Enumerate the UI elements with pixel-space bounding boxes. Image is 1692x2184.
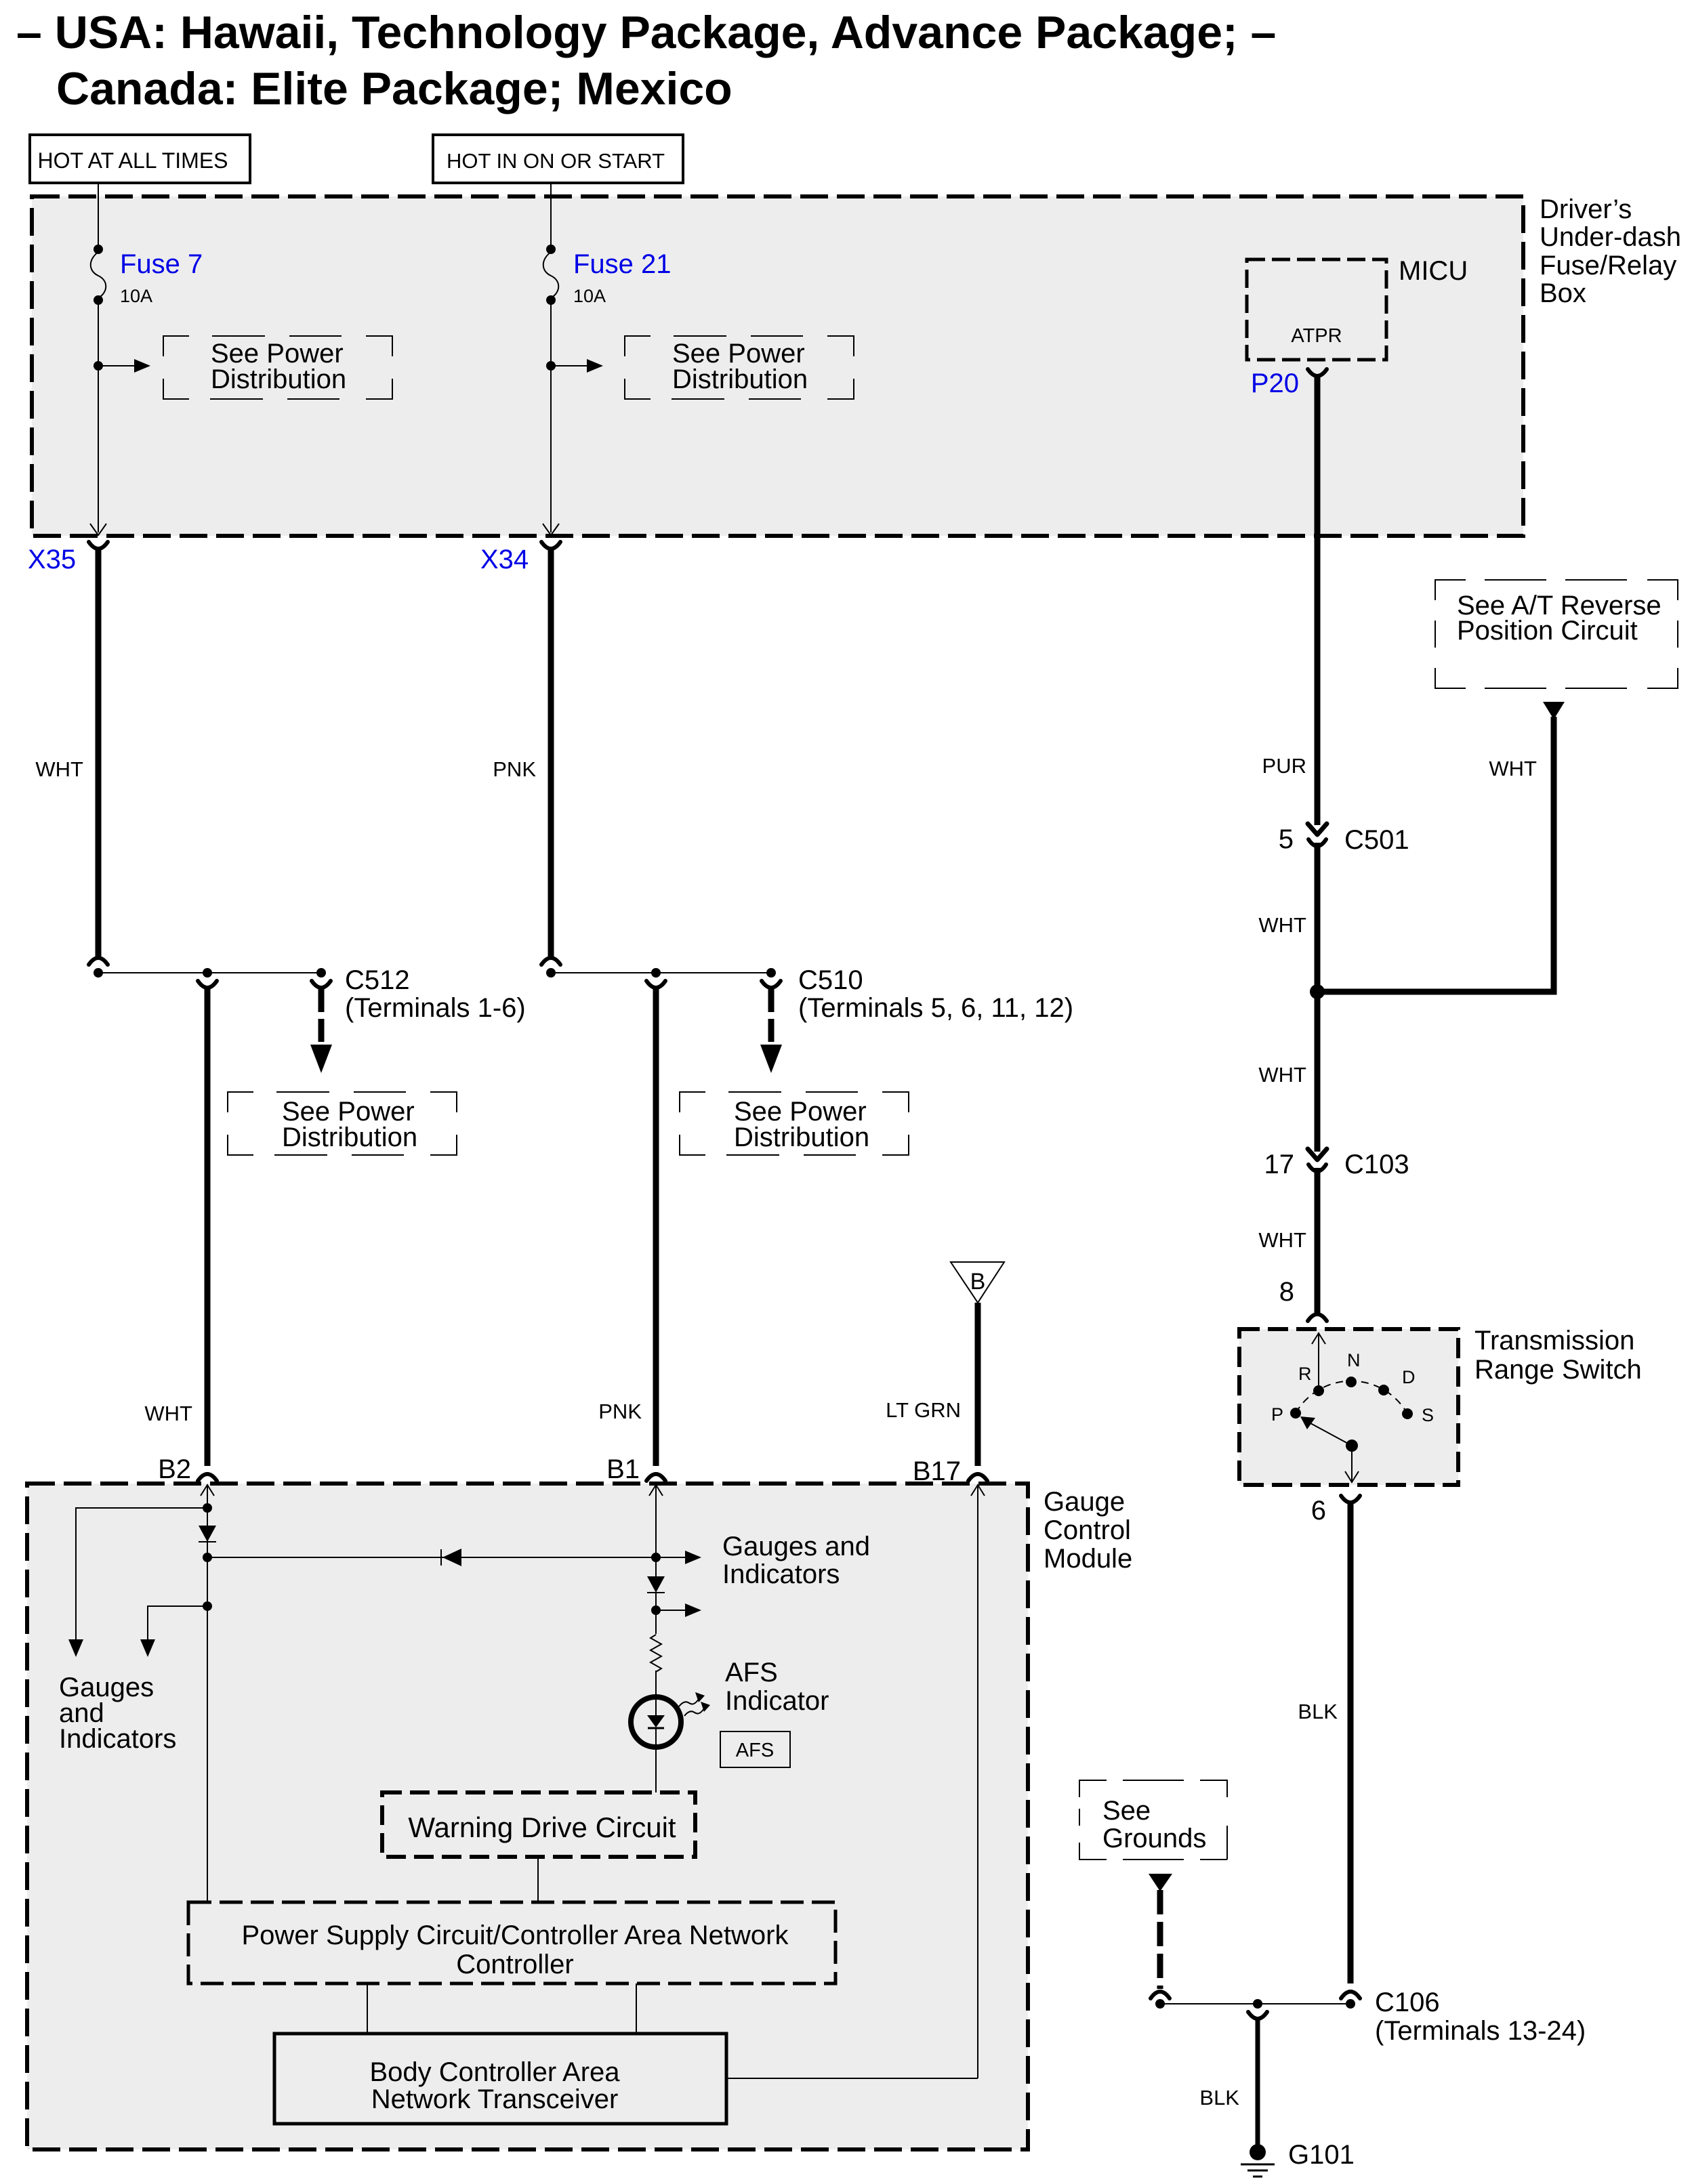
wire WHT junction to C103 xyxy=(1315,992,1321,1152)
See A/T Reverse Position Circuit box xyxy=(1435,580,1678,688)
svg-text:PNK: PNK xyxy=(493,757,536,781)
svg-text:Gauges and: Gauges and xyxy=(722,1532,870,1561)
wire power supply to body CAN left xyxy=(367,1983,368,2034)
svg-text:ATPR: ATPR xyxy=(1291,325,1342,347)
See Power Distribution box 3 xyxy=(228,1092,457,1155)
wire dashed from See Grounds xyxy=(1157,1890,1163,1989)
label Gauges and Indicators left xyxy=(59,1673,176,1754)
svg-text:X34: X34 xyxy=(480,545,529,574)
svg-text:6: 6 xyxy=(1311,1496,1326,1526)
connector B17 socket xyxy=(968,1474,987,1481)
label C510 (Terminals 5, 6, 11, 12) xyxy=(798,965,1073,1023)
svg-text:Indicators: Indicators xyxy=(722,1559,840,1589)
svg-text:See: See xyxy=(1102,1796,1151,1826)
connector X35 socket xyxy=(89,542,108,549)
connector C512 socket xyxy=(312,981,331,988)
junction on fuse 21 wire xyxy=(546,361,556,371)
label C512 (Terminals 1-6) xyxy=(345,965,526,1023)
svg-text:Distribution: Distribution xyxy=(672,364,808,394)
wire branch to gauges left 1 xyxy=(76,1508,207,1639)
svg-text:PNK: PNK xyxy=(598,1400,642,1423)
svg-text:8: 8 xyxy=(1279,1277,1294,1307)
fuse F7 xyxy=(91,245,106,305)
arrowhead from See Grounds xyxy=(1149,1874,1172,1891)
arrowhead at fuse box border below fuse 7 xyxy=(90,524,106,535)
wire dashed to See Power Distribution 4 xyxy=(768,989,775,1043)
svg-text:Range Switch: Range Switch xyxy=(1474,1355,1642,1385)
MICU box xyxy=(1247,259,1386,360)
svg-text:10A: 10A xyxy=(573,286,606,306)
connector C501 inline xyxy=(1308,824,1327,846)
svg-text:HOT IN ON OR START: HOT IN ON OR START xyxy=(447,149,665,173)
svg-text:WHT: WHT xyxy=(144,1402,192,1425)
svg-text:Warning Drive Circuit: Warning Drive Circuit xyxy=(408,1811,676,1843)
connector socket below C106 xyxy=(1248,2012,1267,2019)
LED light arrows xyxy=(679,1692,710,1716)
wire power supply to body CAN right xyxy=(636,1983,637,2034)
node B2 branch 1 xyxy=(203,1503,212,1513)
svg-text:(Terminals 1-6): (Terminals 1-6) xyxy=(345,993,526,1023)
fuse F21 xyxy=(543,245,559,305)
svg-text:10A: 10A xyxy=(120,286,152,306)
wire WHT to B2 xyxy=(205,988,211,1466)
wire BLK from pin 6 xyxy=(1348,1503,1354,1983)
svg-text:Box: Box xyxy=(1540,278,1586,308)
svg-text:WHT: WHT xyxy=(1489,757,1537,780)
label HOT AT ALL TIMES xyxy=(30,135,250,183)
label See Power Distribution 3 xyxy=(282,1097,417,1152)
connector B2 socket xyxy=(198,1474,217,1481)
node B ground reference triangle xyxy=(951,1262,1004,1303)
svg-text:Controller: Controller xyxy=(456,1950,573,1979)
svg-text:Indicators: Indicators xyxy=(59,1724,176,1754)
svg-text:R: R xyxy=(1298,1364,1312,1384)
label Driver's Under-dash Fuse/Relay Box xyxy=(1540,194,1681,308)
label See Power Distribution 2 xyxy=(672,339,808,394)
connector C103 inline xyxy=(1308,1149,1327,1171)
connector at C106 left xyxy=(1151,1992,1170,1998)
wire WHT X35 down xyxy=(96,550,102,957)
Warning Drive Circuit box xyxy=(382,1792,695,1857)
svg-text:AFS: AFS xyxy=(725,1658,778,1687)
See Power Distribution box 2 xyxy=(625,336,854,399)
wire body CAN to B17 xyxy=(726,2078,978,2079)
svg-text:Transmission: Transmission xyxy=(1474,1326,1634,1356)
arrow to gauges right xyxy=(656,1551,701,1564)
wire resistor to LED xyxy=(655,1671,657,1698)
wire bus B2 to B1 xyxy=(207,1557,656,1558)
label See Grounds xyxy=(1102,1796,1206,1853)
arrow into B17 xyxy=(971,1485,985,2078)
svg-text:B2: B2 xyxy=(158,1454,191,1484)
svg-text:B: B xyxy=(970,1269,986,1295)
svg-text:(Terminals 5, 6, 11, 12): (Terminals 5, 6, 11, 12) xyxy=(798,993,1073,1023)
svg-text:D: D xyxy=(1402,1367,1416,1387)
transmission range switch contacts xyxy=(1290,1377,1413,1419)
wire from HOT IN ON OR START to fuse 21 xyxy=(550,183,552,249)
node B2 branch 3 xyxy=(203,1601,212,1611)
svg-text:Fuse 7: Fuse 7 xyxy=(120,249,203,279)
node junction row right xyxy=(546,968,776,978)
svg-text:Grounds: Grounds xyxy=(1102,1824,1206,1853)
wire WHT branch to A/T reverse xyxy=(1317,717,1554,992)
label Transmission Range Switch xyxy=(1474,1326,1642,1385)
svg-text:Position Circuit: Position Circuit xyxy=(1457,616,1638,646)
connector X34 socket xyxy=(541,542,560,549)
diode on bus pointing left xyxy=(441,1549,461,1566)
node B1 junction 2 xyxy=(651,1593,661,1634)
wire LED to warning drive circuit xyxy=(655,1746,657,1792)
connector at X35 wire bottom xyxy=(89,958,108,965)
svg-text:C103: C103 xyxy=(1344,1150,1409,1179)
ground G101 xyxy=(1241,2144,1275,2177)
See Power Distribution box 1 xyxy=(163,336,392,399)
svg-text:PUR: PUR xyxy=(1262,754,1306,778)
connector B1 socket xyxy=(646,1474,665,1481)
connector at C106 right xyxy=(1341,1992,1360,1998)
arrowhead to See Power Distribution 4 xyxy=(760,1045,782,1073)
svg-text:Gauge: Gauge xyxy=(1044,1487,1125,1517)
svg-text:Power Supply Circuit/Controlle: Power Supply Circuit/Controller Area Net… xyxy=(242,1920,789,1950)
svg-text:17: 17 xyxy=(1264,1150,1295,1179)
junction on fuse 7 wire xyxy=(94,361,103,371)
wire PUR from P20 xyxy=(1315,377,1321,825)
svg-text:P: P xyxy=(1271,1404,1283,1425)
arrow pivot to pin 6 xyxy=(1345,1446,1359,1482)
arrow into B1 xyxy=(649,1485,663,1557)
wire WHT below C501 xyxy=(1315,843,1321,992)
connector socket pin 6 xyxy=(1341,1496,1360,1503)
svg-text:G101: G101 xyxy=(1288,2140,1355,2170)
connector P20 socket xyxy=(1308,369,1327,376)
svg-text:Fuse 21: Fuse 21 xyxy=(573,249,672,279)
diode on B2 line xyxy=(199,1526,216,1542)
wire PNK to B1 xyxy=(653,988,659,1466)
arrowhead to See Power Distribution 3 xyxy=(310,1045,332,1073)
svg-text:BLK: BLK xyxy=(1199,2086,1239,2109)
label See Power Distribution 1 xyxy=(211,339,346,394)
svg-text:– USA: Hawaii, Technology Pack: – USA: Hawaii, Technology Package, Advan… xyxy=(16,7,1276,58)
diode on B1 line xyxy=(647,1557,665,1593)
node junction P20/AT branch xyxy=(1310,984,1325,999)
svg-text:B1: B1 xyxy=(606,1454,640,1484)
arrowhead from See A/T Reverse box xyxy=(1543,702,1565,719)
node C106 row xyxy=(1155,1999,1355,2009)
svg-text:Network Transceiver: Network Transceiver xyxy=(371,2084,619,2114)
svg-text:MICU: MICU xyxy=(1399,256,1468,286)
arrow R to pin 8 xyxy=(1312,1333,1325,1391)
label HOT IN ON OR START xyxy=(433,135,683,183)
arrowhead gauges left 1 xyxy=(68,1639,83,1657)
wire WHT below C103 xyxy=(1315,1168,1321,1313)
svg-text:X35: X35 xyxy=(28,545,76,574)
wire branch to gauges left 2 xyxy=(148,1606,207,1639)
svg-text:Driver’s: Driver’s xyxy=(1540,194,1632,224)
arrow into B2 xyxy=(201,1485,214,1902)
Body Controller Area Network Transceiver box xyxy=(274,2034,726,2124)
Transmission Range Switch box xyxy=(1239,1329,1458,1485)
Power Supply Circuit/CAN Controller box xyxy=(188,1902,835,1983)
svg-text:Fuse/Relay: Fuse/Relay xyxy=(1540,251,1676,280)
AFS indicator box xyxy=(720,1731,790,1767)
svg-text:Distribution: Distribution xyxy=(734,1122,869,1152)
svg-text:WHT: WHT xyxy=(35,757,83,781)
svg-text:C106: C106 xyxy=(1375,1988,1440,2017)
connector socket to B2 wire xyxy=(198,981,217,988)
svg-text:Canada: Elite Package; Mexico: Canada: Elite Package; Mexico xyxy=(56,63,732,114)
svg-text:LT GRN: LT GRN xyxy=(886,1398,961,1422)
wire fuse 21 down xyxy=(550,300,552,532)
node junction row left xyxy=(94,968,326,978)
See Power Distribution box 4 xyxy=(680,1092,909,1155)
label Gauges and Indicators right xyxy=(722,1532,870,1589)
node B2 branch 2 xyxy=(203,1553,212,1562)
arrow to See Power Distribution 2 xyxy=(551,359,603,373)
wire from HOT AT ALL TIMES to fuse 7 xyxy=(98,183,99,249)
Gauge Control Module box xyxy=(27,1484,1028,2149)
wire LT GRN xyxy=(975,1303,981,1466)
svg-text:WHT: WHT xyxy=(1258,913,1306,937)
svg-text:5: 5 xyxy=(1279,824,1294,854)
svg-text:(Terminals 13-24): (Terminals 13-24) xyxy=(1375,2016,1586,2046)
svg-text:Control: Control xyxy=(1044,1515,1131,1545)
wire PNK X34 down xyxy=(548,550,554,957)
label AFS Indicator xyxy=(725,1658,829,1716)
wire dashed to See Power Distribution 3 xyxy=(318,989,325,1043)
svg-text:C510: C510 xyxy=(798,965,863,995)
arrowhead gauges left 2 xyxy=(140,1639,155,1657)
label Gauge Control Module xyxy=(1044,1487,1132,1574)
svg-text:P20: P20 xyxy=(1251,369,1299,398)
See Grounds box xyxy=(1079,1780,1227,1860)
node B1 junction 1 xyxy=(651,1553,661,1562)
svg-text:S: S xyxy=(1422,1405,1434,1425)
svg-text:HOT AT ALL TIMES: HOT AT ALL TIMES xyxy=(38,148,228,173)
arrowhead at fuse box border below fuse 21 xyxy=(543,524,559,535)
connector C510 socket xyxy=(762,981,781,988)
svg-text:AFS: AFS xyxy=(736,1740,774,1761)
svg-text:Indicator: Indicator xyxy=(725,1686,829,1716)
label C106 (Terminals 13-24) xyxy=(1375,1988,1586,2046)
Driver's Under-dash Fuse/Relay Box outline xyxy=(32,196,1523,536)
svg-text:Distribution: Distribution xyxy=(211,364,346,394)
svg-text:Distribution: Distribution xyxy=(282,1122,417,1152)
LED AFS indicator xyxy=(631,1697,681,1747)
switch arm pivot xyxy=(1346,1440,1358,1452)
svg-text:Body Controller Area: Body Controller Area xyxy=(369,2057,620,2087)
svg-text:C512: C512 xyxy=(345,965,410,995)
svg-text:WHT: WHT xyxy=(1258,1063,1306,1087)
svg-text:N: N xyxy=(1347,1350,1361,1370)
svg-text:WHT: WHT xyxy=(1258,1228,1306,1252)
svg-text:C501: C501 xyxy=(1344,825,1409,855)
resistor in AFS drive xyxy=(651,1635,661,1672)
wire BLK to G101 xyxy=(1256,2019,1260,2145)
svg-text:Module: Module xyxy=(1044,1544,1132,1574)
connector socket pin 8 xyxy=(1308,1314,1327,1321)
label See Power Distribution 4 xyxy=(734,1097,869,1152)
switch arm to P xyxy=(1300,1416,1352,1446)
connector at X34 wire bottom xyxy=(541,958,560,965)
connector socket to B1 wire xyxy=(646,981,665,988)
arrow right from B1 junction 2 xyxy=(656,1603,701,1617)
svg-text:Under-dash: Under-dash xyxy=(1540,222,1681,252)
wire fuse 7 down xyxy=(98,300,99,532)
wire warning to power supply xyxy=(537,1857,539,1902)
label See A/T Reverse Position Circuit xyxy=(1457,591,1662,646)
arrow to See Power Distribution 1 xyxy=(98,359,150,373)
svg-text:BLK: BLK xyxy=(1298,1700,1338,1723)
